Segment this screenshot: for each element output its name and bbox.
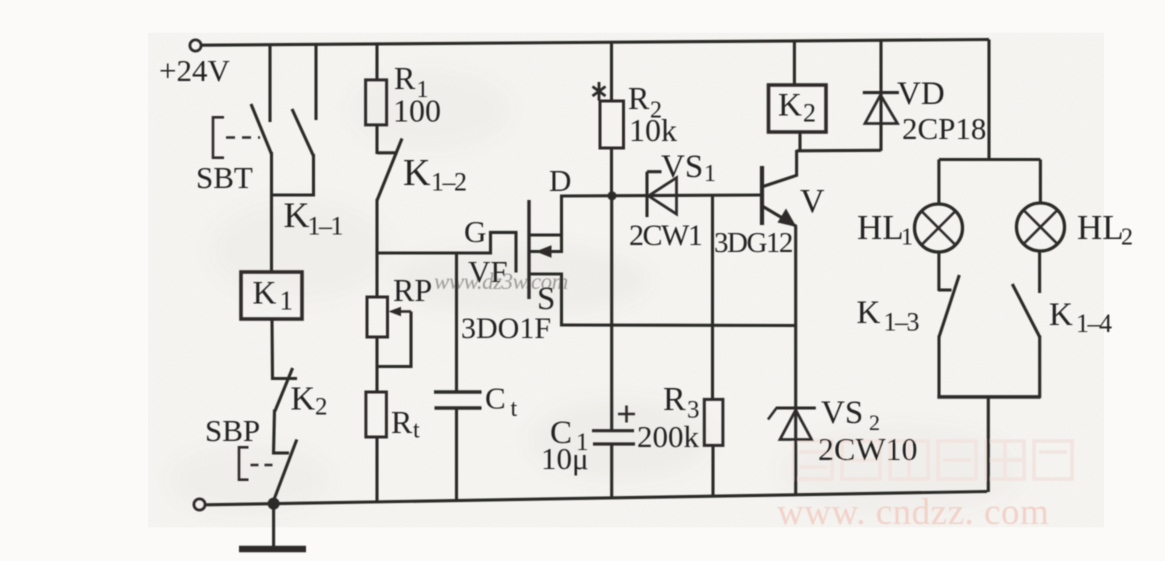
lamp HL2 bbox=[1017, 203, 1065, 251]
wire K2 to SBP bbox=[274, 410, 275, 455]
relay coil K2 bbox=[769, 85, 827, 132]
svg-text:2: 2 bbox=[803, 99, 816, 128]
wire node to R3 bbox=[711, 195, 714, 401]
wire emitter lead down bbox=[794, 226, 797, 440]
svg-text:1–1: 1–1 bbox=[308, 212, 343, 241]
watermark chinese characters bbox=[794, 441, 1072, 479]
svg-text:K: K bbox=[291, 381, 316, 418]
wire K1-4 lower lead bbox=[1038, 336, 1041, 399]
svg-text:SBT: SBT bbox=[196, 160, 253, 195]
svg-text:R: R bbox=[663, 381, 686, 418]
wire HL2 lead bbox=[1039, 160, 1042, 205]
svg-text:t: t bbox=[511, 396, 518, 422]
svg-text:D: D bbox=[549, 163, 571, 198]
wire lamp bottom joiner bbox=[937, 395, 1040, 399]
pushbutton SBP (foot) bbox=[274, 451, 290, 454]
MOSFET VF source stub bbox=[531, 272, 564, 275]
svg-text:K: K bbox=[403, 152, 431, 194]
pushbutton SBT (blade) bbox=[251, 104, 272, 154]
svg-text:SBP: SBP bbox=[205, 413, 260, 448]
power terminal +24V (open circle) bbox=[190, 40, 201, 51]
svg-text:1–3: 1–3 bbox=[884, 308, 919, 337]
svg-text:2CP18: 2CP18 bbox=[902, 111, 986, 146]
svg-text:200k: 200k bbox=[637, 419, 700, 454]
zener diode VS1 (triangle) bbox=[649, 178, 677, 214]
lamp HL1 bbox=[915, 204, 963, 252]
svg-text:1: 1 bbox=[280, 286, 294, 316]
wire rail to relay coil K2 bbox=[793, 41, 796, 86]
wire node to Ct bbox=[455, 253, 458, 392]
resistor R1 bbox=[366, 80, 387, 125]
ground bbox=[239, 546, 306, 553]
wire rail right drop bbox=[987, 40, 990, 162]
svg-text:2: 2 bbox=[1121, 225, 1133, 251]
MOSFET VF body stub with arrow bbox=[531, 250, 564, 253]
transistor V collector bbox=[763, 175, 798, 187]
transistor V emitter with arrow bbox=[763, 207, 797, 227]
zener diode VS2 (triangle) bbox=[780, 410, 812, 440]
svg-text:R: R bbox=[628, 80, 650, 116]
svg-text:2: 2 bbox=[315, 394, 328, 421]
relay contact K1-1 (blade) bbox=[292, 109, 314, 156]
relay contact K1-4 (blade) bbox=[1012, 284, 1039, 337]
relay contact K2 (blade) bbox=[275, 368, 293, 411]
label * bbox=[593, 82, 606, 101]
wire bottom ground rail bbox=[206, 492, 988, 505]
diode VD anode lead bbox=[879, 123, 882, 151]
capacitor C1 (polarized) bbox=[592, 431, 635, 444]
wire HL1 to K1-3 bbox=[937, 251, 940, 291]
MOSFET VF drain stub bbox=[531, 233, 564, 236]
relay contact K1-3 (foot) bbox=[938, 288, 951, 291]
svg-text:2CW10: 2CW10 bbox=[818, 431, 918, 467]
wire R1 to K1-2 bbox=[375, 125, 378, 154]
svg-text:2CW1: 2CW1 bbox=[629, 219, 702, 252]
wire K1-2 to gate node bbox=[375, 199, 378, 255]
diode VD (cathode bar) bbox=[863, 91, 899, 94]
svg-text:3DG12: 3DG12 bbox=[714, 227, 792, 259]
potentiometer RP (wiper return wire) bbox=[378, 312, 412, 367]
wire K1 to K2 contact bbox=[270, 319, 274, 380]
svg-text:K: K bbox=[857, 295, 881, 331]
wire RP to Rt bbox=[375, 337, 378, 393]
pushbutton SBT actuator bbox=[213, 116, 260, 159]
wire Rt to ground rail bbox=[375, 437, 378, 503]
resistor R3 bbox=[704, 399, 723, 445]
svg-text:t: t bbox=[413, 418, 420, 444]
svg-text:R: R bbox=[394, 60, 416, 96]
svg-text:1–4: 1–4 bbox=[1076, 309, 1112, 338]
svg-text:VF: VF bbox=[468, 254, 508, 289]
wire drain node horizontal bbox=[562, 195, 763, 196]
wire top supply rail bbox=[202, 40, 990, 46]
svg-text:K: K bbox=[253, 276, 277, 312]
wire node to RP bbox=[375, 253, 378, 298]
svg-text:R: R bbox=[391, 404, 413, 440]
wire gate lead (step) bbox=[491, 232, 517, 272]
wire HL2 to K1-4 bbox=[1038, 250, 1041, 294]
resistor Rt bbox=[366, 392, 387, 437]
wire K1-1 lower lead bbox=[312, 154, 315, 197]
wire to relay coil K1 bbox=[270, 195, 273, 273]
svg-text:1–2: 1–2 bbox=[431, 168, 466, 197]
svg-text:K: K bbox=[778, 88, 802, 124]
wire node to C1 bbox=[610, 196, 613, 431]
wire joiner SBT/K1-1 bbox=[270, 193, 315, 196]
wire rail to R2 bbox=[610, 42, 613, 102]
svg-text:K: K bbox=[284, 195, 310, 235]
wire VS2 anode to ground rail bbox=[794, 440, 797, 496]
svg-text:V: V bbox=[800, 183, 825, 220]
wire R2 to node bbox=[610, 148, 613, 196]
svg-text:K: K bbox=[1049, 297, 1073, 333]
svg-text:1: 1 bbox=[704, 161, 716, 187]
relay contact K1-3 (blade) bbox=[939, 275, 959, 337]
wire collector node horizontal bbox=[797, 149, 881, 153]
potentiometer RP (body) bbox=[367, 297, 388, 337]
MOSFET VF gate bar bbox=[527, 200, 530, 299]
pushbutton SBP (blade) bbox=[274, 440, 297, 501]
svg-text:10μ: 10μ bbox=[541, 441, 589, 476]
wire SBT upper lead bbox=[268, 45, 271, 122]
svg-text:G: G bbox=[464, 214, 486, 249]
svg-text:3DO1F: 3DO1F bbox=[461, 312, 551, 345]
capacitor Ct bbox=[434, 392, 482, 408]
svg-text:C: C bbox=[485, 381, 506, 416]
svg-text:HL: HL bbox=[857, 208, 904, 247]
svg-text:VS: VS bbox=[661, 149, 703, 185]
wire ground stem bbox=[272, 504, 275, 546]
zener diode VS1 (cathode bar) bbox=[645, 172, 648, 217]
ground terminal (open circle, bottom left) bbox=[194, 499, 205, 510]
wire lamp splitter bbox=[939, 158, 1041, 161]
relay contact K2 (foot) bbox=[273, 377, 298, 380]
svg-text:+24V: +24V bbox=[159, 53, 230, 88]
wire gate node horizontal bbox=[377, 251, 492, 254]
wire R3 to ground rail bbox=[711, 446, 714, 497]
wire rail to R1 bbox=[375, 44, 378, 81]
svg-text:100: 100 bbox=[393, 93, 441, 129]
diode VD (cathode lead from rail) bbox=[879, 40, 882, 123]
svg-text:HL: HL bbox=[1077, 208, 1124, 247]
wire source lead bbox=[560, 274, 563, 327]
svg-text:RP: RP bbox=[393, 272, 432, 308]
node junction at R2/C1/D bbox=[608, 191, 617, 200]
zener diode VS2 (cathode bar) bbox=[776, 406, 816, 409]
transistor V base bar bbox=[760, 166, 764, 225]
potentiometer RP (wiper arrow) bbox=[389, 307, 402, 316]
relay contact K1-2 (blade) bbox=[377, 139, 402, 201]
relay contact K1-2 (foot) bbox=[377, 151, 398, 154]
wire C1 to ground rail bbox=[610, 444, 613, 498]
wire source node horizontal bbox=[562, 323, 796, 327]
resistor R2 bbox=[600, 101, 624, 148]
wire HL1 lead bbox=[937, 160, 940, 206]
wire K1-1 upper lead bbox=[314, 44, 317, 120]
svg-text:VD: VD bbox=[897, 76, 945, 112]
label + polarity bbox=[618, 406, 635, 423]
svg-text:1: 1 bbox=[901, 225, 913, 251]
node junction at SBP/ground bbox=[268, 498, 280, 510]
svg-text:VS: VS bbox=[821, 395, 863, 431]
wire SBT lower lead bbox=[270, 152, 273, 197]
pushbutton SBP actuator bbox=[239, 446, 278, 481]
wire joiner to ground rail bbox=[987, 397, 990, 492]
wire drain lead bbox=[560, 195, 563, 253]
wire K1-3 lower lead bbox=[937, 336, 940, 399]
diode VD (triangle) bbox=[865, 95, 898, 124]
relay coil K1 bbox=[241, 272, 302, 319]
wire K2 bottom stub bbox=[798, 131, 801, 152]
svg-text:www. cndzz. com: www. cndzz. com bbox=[777, 492, 1049, 533]
svg-text:10k: 10k bbox=[629, 112, 677, 148]
wire Ct to ground rail bbox=[455, 408, 458, 501]
